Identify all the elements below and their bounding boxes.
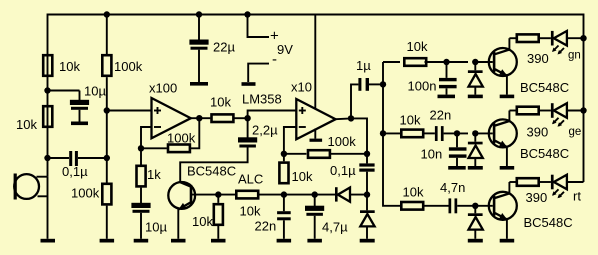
capacitor C3 10u [140,188,142,203]
svg-text:10k: 10k [403,185,424,200]
diode D2 clamp to ground [366,195,368,211]
ground for D4 [468,166,483,170]
node row1 D3 [472,59,478,65]
svg-text:10k: 10k [59,59,80,74]
svg-text:100k: 100k [71,186,100,201]
LED LED1 green [551,31,554,46]
node bus 1u [380,81,386,87]
battery 9V clip [248,15,270,38]
resistor R14 10k row2 [383,132,400,134]
node U1b feedback [281,151,287,157]
transistor Q3 BC548C row2 [475,132,493,134]
node rail LED1 [580,35,586,41]
svg-text:10µ: 10µ [84,84,106,99]
diode D4 clamp row2 [474,133,476,141]
node ALC filter [281,191,287,197]
resistor R10 10k to rectifier [283,154,285,162]
ground for Q1 emitter [171,239,186,243]
svg-text:x100: x100 [149,81,177,96]
node U1b output [336,117,351,120]
resistor R12 10k row1 [383,61,400,63]
svg-text:ALC: ALC [238,172,263,187]
ground for microphone [41,239,56,243]
wire C5 to Q1 collector [180,148,247,183]
svg-text:10k: 10k [210,95,231,110]
svg-text:10n: 10n [421,147,443,162]
resistor R5 100k feedback [168,145,190,153]
svg-text:0,1µ: 0,1µ [62,164,88,179]
node 4.7u tap [312,191,318,197]
capacitor C6 22n [283,195,285,212]
ground for Q2 emitter [500,95,515,99]
ground bar U1b [314,129,316,139]
wire supply to U1b [314,15,316,110]
wire Q1 base row [192,194,235,196]
resistor R2 10k lower divider [47,91,49,159]
ground for C7 [307,239,322,243]
svg-text:10k: 10k [192,214,213,229]
node row2 C12 [454,130,460,136]
svg-text:1k: 1k [147,167,161,182]
svg-text:9V: 9V [277,42,293,57]
op-amp U1a x100 [107,110,152,112]
diode D1 ALC rectifier [335,187,338,201]
capacitor C12 10n [456,133,458,147]
node x10 +input [244,115,250,121]
node rectifier [364,191,370,197]
capacitor C9 1u output coupling [351,84,358,118]
capacitor C7 4.7u [314,195,316,206]
svg-text:100k: 100k [328,134,357,149]
wire top +9V rail [48,15,584,183]
capacitor C4 22u supply [198,15,200,40]
ground for C4 [190,82,208,86]
resistor R8 10k vertical [217,195,219,203]
svg-text:-: - [272,51,277,68]
svg-text:390: 390 [526,190,548,205]
svg-text:gn: gn [568,50,581,62]
op-amp U1b x10 [296,99,335,139]
svg-text:10k: 10k [292,169,313,184]
wire output to feedback cap [351,118,367,153]
ground for D3 [468,95,483,99]
svg-text:0,1µ: 0,1µ [330,163,356,178]
node rail-battery [244,11,250,17]
svg-text:2,2µ: 2,2µ [252,123,278,138]
capacitor C5 2.2u to ALC [247,118,249,137]
svg-text:100k: 100k [167,131,196,146]
resistor R17 390 row3 [509,181,515,183]
transistor Q1 BC548C ALC [168,182,195,209]
ground for R8 [211,239,226,243]
svg-text:10k: 10k [16,117,37,132]
svg-text:10µ: 10µ [145,220,167,235]
wire U1b inverting input [284,127,296,154]
ground for Q4 emitter [500,239,515,243]
wire to x10 +input [248,111,297,119]
svg-text:22n: 22n [430,108,452,123]
resistor R13 390 row1 [509,37,515,39]
diode D5 clamp row3 [474,206,476,214]
svg-text:22n: 22n [255,219,277,234]
resistor R3 100k upper bias [102,55,111,76]
resistor R11 100k feedback [284,153,307,155]
node feedback-cap [364,151,370,157]
wire bias column [106,15,108,55]
svg-text:4,7n: 4,7n [440,180,465,195]
resistor R9 10k ALC series [236,191,258,199]
svg-text:BC548C: BC548C [524,215,573,230]
node mic coupling [44,155,50,161]
transistor Q2 BC548C row1 [475,61,493,63]
node bias to op-amp [104,107,110,113]
LED LED3 red [551,175,554,190]
node base row [215,191,221,197]
node rail-22u [196,11,202,17]
svg-text:22µ: 22µ [213,40,235,55]
resistor R4 100k lower bias [102,184,111,205]
capacitor C2 0.1u input coupling [48,157,70,159]
svg-text:ge: ge [569,126,582,138]
svg-text:100k: 100k [114,59,143,74]
svg-text:390: 390 [527,125,549,140]
capacitor C11 22n series [435,126,438,141]
svg-text:1µ: 1µ [356,58,371,73]
ground for battery minus [242,82,256,86]
resistor R1 10k upper-left divider [47,54,49,91]
svg-text:x10: x10 [291,80,312,95]
ground for C6 [277,239,292,243]
svg-text:BC548C: BC548C [187,164,236,179]
node rail-100k [104,11,110,17]
ground for D5 [468,239,483,243]
transistor Q4 BC548C row3 [489,192,517,220]
svg-text:10k: 10k [240,204,261,219]
ground for D2 [360,239,375,243]
node row3 D5 [472,203,478,209]
svg-text:100n: 100n [408,79,437,94]
node A divider [44,87,50,93]
ground for Q3 emitter [500,166,515,170]
ground for R4 [100,239,115,243]
resistor R15 390 row2 [509,110,515,112]
wire U1a feedback [191,118,199,148]
svg-text:BC548C: BC548C [520,80,569,95]
ground for C3 [134,239,149,243]
node row1 C10 [443,59,449,65]
node bus row2 [380,130,386,136]
node feedback [138,145,144,151]
capacitor C13 4.7n series [449,198,452,213]
resistor R7 10k interstage [212,114,234,122]
svg-text:LM358: LM358 [242,92,282,107]
svg-text:4,7µ: 4,7µ [322,220,348,235]
wire inverting input [141,127,152,148]
resistor R6 1k [140,148,142,164]
node U1a output [191,117,211,119]
svg-text:rt: rt [573,189,581,204]
ground for C1 [71,122,88,126]
capacitor C8 0.1u [359,163,374,166]
ground for C10 [438,95,456,99]
LED LED2 yellow [551,103,554,118]
svg-text:390: 390 [527,51,549,66]
wire filter bus [383,62,400,206]
capacitor C1 10u divider bypass [48,90,80,92]
capacitor C10 100n [446,62,448,78]
resistor R16 10k row3 [401,202,423,210]
microphone MIC electret [47,158,49,177]
node coupling junction [104,155,110,161]
node rail LED2 [580,107,586,113]
ground for C12 [448,166,466,170]
svg-text:BC548C: BC548C [520,146,569,161]
svg-text:10k: 10k [400,113,421,128]
node row2 D4 [472,130,478,136]
diode D3 clamp row1 [474,62,476,70]
svg-text:10k: 10k [407,39,428,54]
